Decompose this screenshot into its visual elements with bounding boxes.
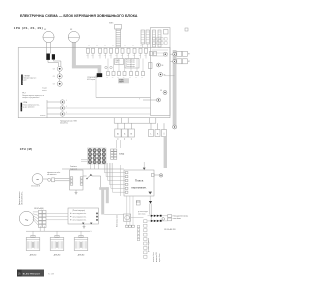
svg-text:ІНВЕРТ.: ІНВЕРТ. (119, 82, 125, 84)
svg-text:СN: СN (141, 77, 143, 79)
svg-text:SP-07x-B(4): SP-07x-B(4) (34, 208, 44, 210)
svg-text:СN1: СN1 (144, 55, 147, 57)
svg-text:СN: СN (129, 77, 131, 79)
svg-text:СN1: СN1 (127, 55, 130, 57)
svg-text:ку, дж. живлення: ку, дж. живлення (23, 107, 35, 109)
svg-text:DB: DB (162, 65, 164, 67)
svg-text:до плати керув.: до плати керув. (138, 211, 149, 213)
svg-text:СN: СN (140, 45, 142, 47)
svg-text:Використовувати термостат, не: Використовувати термостат, не (22, 95, 44, 97)
svg-text:3 задня: 3 задня (42, 88, 47, 90)
svg-text:Термодатчик зовн. ПОВ: Термодатчик зовн. ПОВ (60, 120, 77, 122)
svg-text:MF: MF (44, 29, 46, 31)
svg-text:СN1: СN1 (115, 55, 118, 57)
svg-text:СN: СN (104, 45, 106, 47)
svg-text:К(ЗНД): К(ЗНД) (119, 153, 125, 155)
svg-text:RY: RY (188, 54, 190, 56)
svg-text:СN: СN (106, 77, 108, 79)
svg-text:СN: СN (53, 76, 55, 78)
svg-text:L: L (91, 231, 92, 233)
svg-text:ЕЛЕКТРИЧНА СХЕМА — БЛОК КЕРУВА: ЕЛЕКТРИЧНА СХЕМА — БЛОК КЕРУВАННЯ ЗОВНІШ… (20, 14, 138, 18)
svg-text:СN1: СN1 (121, 55, 124, 57)
svg-text:~: ~ (25, 217, 29, 224)
svg-text:Джерело живлення: Джерело живлення (19, 191, 21, 205)
svg-text:N. 138: N. 138 (48, 273, 55, 275)
svg-text:нього блока: нього блока (173, 218, 181, 220)
svg-text:СN1: СN1 (86, 55, 89, 57)
svg-text:СN: СN (53, 68, 55, 70)
svg-text:RY: RY (188, 61, 190, 63)
svg-text:Вентилятор зовн.: Вентилятор зовн. (117, 214, 119, 227)
svg-text:СN: СN (88, 45, 90, 47)
svg-text:СN1: СN1 (109, 55, 112, 57)
svg-text:СN: СN (112, 77, 114, 79)
svg-text:СN: СN (117, 77, 119, 79)
svg-text:СN: СN (123, 77, 125, 79)
svg-text:перем. блок: перем. блок (159, 253, 161, 262)
svg-text:403 В перем.: 403 В перем. (87, 79, 96, 81)
svg-text:СВІТЛ.: СВІТЛ. (115, 62, 120, 64)
svg-text:СN: СN (96, 45, 98, 47)
svg-text:DB: DB (160, 90, 162, 92)
svg-text:~: ~ (36, 178, 39, 184)
svg-text:затискач: затискач (40, 115, 46, 117)
svg-text:СN1: СN1 (133, 55, 136, 57)
svg-text:панель: панель (42, 90, 47, 92)
svg-text:СN: СN (112, 45, 114, 47)
svg-text:СN1: СN1 (91, 55, 94, 57)
svg-text:СN1: СN1 (104, 55, 107, 57)
svg-text:перемикач.: перемикач. (131, 185, 147, 189)
svg-text:РК-7: РК-7 (22, 93, 25, 95)
svg-text:СN: СN (135, 77, 137, 79)
svg-text:ELECTROLUX: ELECTROLUX (23, 273, 41, 275)
svg-text:живлення 220: живлення 220 (156, 252, 158, 262)
svg-text:СN: СN (124, 45, 126, 47)
svg-text:СN: СN (53, 83, 55, 85)
svg-text:2 ПУЛЬТ: 2 ПУЛЬТ (24, 75, 30, 77)
svg-text:SP-07x-BU-703: SP-07x-BU-703 (164, 229, 175, 231)
svg-text:СN: СN (132, 45, 134, 47)
svg-text:СN1: СN1 (139, 55, 142, 57)
svg-text:до плати керування: до плати керування (148, 238, 150, 252)
svg-text:Використовується: Використовується (24, 78, 37, 80)
svg-text:з'єднання: з'єднання (70, 168, 77, 170)
svg-text:MF: MF (70, 29, 72, 31)
svg-text:Ш: Ш (117, 134, 119, 136)
svg-text:DB: DB (164, 74, 166, 76)
svg-text:зовн. блока: зовн. блока (138, 213, 146, 215)
svg-text:ЖИВЛ.: ЖИВЛ. (109, 23, 114, 25)
svg-text:1PH (2S, 3S, 4S): 1PH (2S, 3S, 4S) (14, 26, 43, 30)
svg-text:СN1: СN1 (98, 55, 101, 57)
svg-text:лю живлення: лю живлення (47, 174, 57, 176)
svg-text:1PH (M): 1PH (M) (20, 147, 33, 151)
svg-text:Плата: Плата (135, 178, 144, 182)
